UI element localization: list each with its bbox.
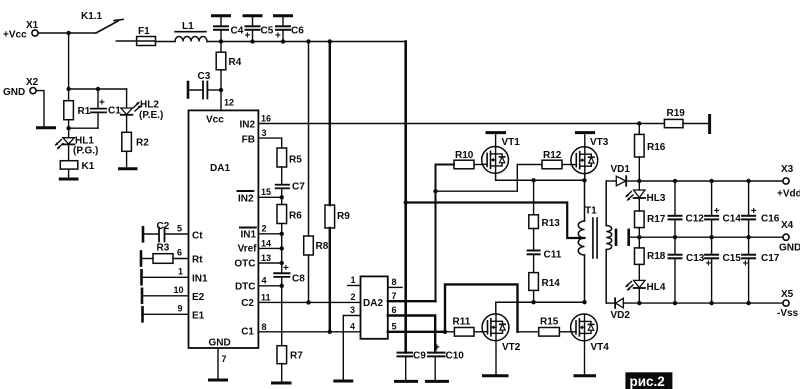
resistor R10 — [454, 150, 482, 169]
svg-text:E2: E2 — [192, 292, 205, 303]
node pin 2 — [280, 232, 284, 236]
svg-text:C12: C12 — [686, 214, 705, 225]
svg-text:+: + — [714, 206, 720, 217]
svg-text:VT2: VT2 — [502, 342, 521, 353]
node +V branch to gate feed — [404, 200, 408, 204]
svg-text:5: 5 — [177, 224, 182, 234]
wire pin 7 to ground — [218, 348, 227, 378]
svg-text:C15: C15 — [723, 253, 742, 264]
svg-text:C13: C13 — [686, 253, 705, 264]
svg-text:рис.2: рис.2 — [630, 374, 665, 389]
resistor R11 — [445, 317, 482, 337]
capacitor C7 — [276, 182, 306, 205]
transistor VT3 — [571, 133, 609, 174]
svg-text:16: 16 — [261, 114, 271, 124]
node R1 top — [66, 87, 70, 91]
svg-text:+: + — [706, 259, 712, 270]
ground (R2) — [120, 167, 137, 170]
node C1 top — [96, 87, 100, 91]
wire rail y89 to HL2 branch — [69, 88, 127, 90]
ground (K1) — [60, 178, 77, 181]
svg-text:R4: R4 — [229, 57, 242, 68]
wire X1 to switch — [38, 32, 96, 34]
svg-text:VD2: VD2 — [611, 310, 631, 321]
svg-text:GND: GND — [3, 87, 25, 98]
node C12 top — [673, 179, 677, 183]
wire X1 node down to R1 rail — [68, 33, 70, 89]
wire K1 to ground — [68, 169, 70, 178]
svg-text:C6: C6 — [291, 26, 304, 37]
node R11 / gate feed — [443, 330, 447, 334]
svg-text:C5: C5 — [261, 26, 274, 37]
wire +V vertical to DA2 area — [404, 42, 407, 353]
svg-text:R5: R5 — [289, 155, 302, 166]
wire HL1 to K1 coil — [68, 144, 70, 160]
svg-text:1: 1 — [351, 275, 356, 285]
svg-text:R15: R15 — [540, 317, 559, 328]
svg-text:GND: GND — [209, 338, 231, 349]
wire pin 8 (C1 out) to DA2 pin 4 — [258, 331, 359, 333]
transformer T1 secondary — [606, 181, 612, 303]
svg-text:C10: C10 — [446, 351, 465, 362]
svg-text:1: 1 — [178, 267, 183, 277]
driver IC DA2 — [361, 276, 388, 338]
svg-text:VT3: VT3 — [590, 137, 609, 148]
pin number labels DA1 left — [174, 224, 184, 314]
transistor VT1 — [482, 133, 521, 174]
T1 secondary centre-tap bars — [616, 230, 639, 245]
svg-text:R16: R16 — [647, 142, 666, 153]
capacitor C1 — [91, 89, 121, 128]
svg-text:R10: R10 — [455, 150, 474, 161]
svg-text:R12: R12 — [543, 150, 562, 161]
resistor R15 — [518, 317, 571, 337]
resistor R3 (pin 6) — [141, 243, 189, 266]
capacitor C3 — [188, 71, 221, 99]
diode VD2 — [606, 298, 639, 321]
wire pin 10 (E2) — [142, 289, 189, 303]
svg-text:(P.G.): (P.G.) — [73, 146, 98, 157]
terminal X2 (GND) — [3, 77, 39, 98]
figure label box (рис.2) — [625, 372, 672, 389]
svg-text:C9: C9 — [413, 351, 426, 362]
ground (DA2 pin 3) — [335, 380, 352, 383]
svg-text:9: 9 — [178, 304, 183, 314]
terminal X4 (GND) — [779, 220, 800, 254]
svg-text:(P.E.): (P.E.) — [139, 110, 163, 121]
ground (DA1 pin 7) — [210, 379, 227, 382]
svg-text:C16: C16 — [761, 214, 780, 225]
svg-text:C7: C7 — [292, 182, 305, 193]
svg-text:+: + — [751, 206, 757, 217]
svg-text:R6: R6 — [289, 211, 302, 222]
svg-text:IN2: IN2 — [239, 120, 255, 131]
svg-text:+: + — [245, 31, 251, 42]
capacitor C14 — [705, 181, 741, 237]
svg-text:R1: R1 — [78, 106, 91, 117]
wire pin 14 (Vref) — [258, 247, 281, 249]
svg-text:2: 2 — [262, 224, 267, 234]
svg-text:C1: C1 — [108, 106, 121, 117]
svg-text:+: + — [99, 98, 105, 109]
svg-text:OTC: OTC — [234, 259, 255, 270]
LED HL2 (P.E.) — [121, 100, 163, 122]
wire pin 11 (C2 out) to DA2 pin 2 — [258, 301, 360, 303]
ground (X2) — [38, 126, 55, 129]
pin 2 label DA2 — [351, 292, 356, 302]
capacitor C2 (pin 5) — [143, 221, 189, 242]
svg-text:X3: X3 — [781, 164, 794, 175]
resistor R2 — [122, 132, 149, 167]
wire node B: VT2/VT4 drains to T1 primary bottom — [496, 302, 585, 314]
svg-text:+Vdd: +Vdd — [777, 189, 800, 200]
svg-text:C11: C11 — [544, 250, 562, 261]
pin 1 stub DA2 — [348, 275, 361, 286]
node X1/R1 junction — [66, 31, 70, 35]
svg-text:VT4: VT4 — [591, 342, 610, 353]
node T1 primary top — [582, 178, 586, 182]
capacitor C11 — [528, 250, 562, 261]
node gate drive branch — [433, 189, 437, 193]
node R9 bottom on pin 8 wire — [328, 330, 332, 334]
svg-text:R19: R19 — [667, 108, 686, 119]
pin number labels DA1 right — [261, 114, 271, 332]
LED HL1 (P.G.) — [55, 128, 99, 156]
svg-text:Vref: Vref — [238, 244, 258, 255]
node C16/C17 mid — [746, 235, 750, 239]
wire pin 16 (IN2) feedback line — [258, 123, 639, 125]
ground (R7) — [273, 382, 291, 385]
node C13 bottom — [673, 301, 677, 305]
LED HL4 — [625, 280, 666, 303]
svg-text:12: 12 — [224, 98, 234, 108]
svg-text:C2: C2 — [157, 221, 170, 232]
capacitor C10 — [428, 343, 464, 381]
resistor R17 — [635, 198, 666, 237]
resistor R16 — [635, 124, 666, 182]
svg-text:10: 10 — [174, 285, 184, 295]
svg-text:HL3: HL3 — [647, 193, 666, 204]
svg-text:R11: R11 — [453, 317, 471, 328]
capacitor C17 — [742, 237, 780, 303]
wire pin 3 DA2 to ground — [343, 305, 360, 379]
wire +V rail — [207, 41, 406, 43]
node C14 top — [709, 179, 713, 183]
svg-text:-Vss: -Vss — [777, 308, 799, 319]
svg-text:K1: K1 — [82, 161, 95, 172]
LED HL3 — [625, 181, 666, 204]
svg-text:R13: R13 — [542, 218, 561, 229]
svg-text:8: 8 — [392, 277, 397, 287]
wire pin 6 DA2 down to pin 5 wire and C10 — [388, 305, 435, 352]
transistor VT4 — [571, 314, 610, 374]
resistor R13 — [529, 180, 560, 250]
svg-text:X5: X5 — [781, 289, 794, 300]
svg-text:C14: C14 — [723, 214, 742, 225]
node C6 — [281, 39, 285, 43]
resistor R19 — [639, 108, 709, 133]
node C12/C13 mid — [673, 235, 677, 239]
svg-text:6: 6 — [177, 248, 182, 258]
diode VD1 — [606, 164, 639, 186]
wire HL2 to R2 — [126, 115, 128, 133]
switch K1.1 — [81, 11, 123, 33]
wire R10 feed from DA2 pin 7 vertical — [436, 165, 455, 302]
svg-text:IN1: IN1 — [240, 230, 256, 241]
svg-text:FB: FB — [242, 135, 255, 146]
node R8 rail tap — [306, 39, 310, 43]
svg-text:4: 4 — [262, 276, 267, 286]
node C15 bottom — [709, 301, 713, 305]
svg-text:C3: C3 — [198, 71, 211, 82]
resistor R4 — [216, 42, 242, 91]
wire pin 1 (IN1) — [142, 270, 189, 284]
svg-text:R7: R7 — [290, 351, 303, 362]
svg-text:HL4: HL4 — [647, 282, 666, 293]
node R4/C4 — [219, 39, 223, 43]
svg-text:VT1: VT1 — [502, 137, 521, 148]
capacitor C8 — [274, 263, 305, 286]
node HL4/VD2 on -Vss rail — [637, 301, 641, 305]
svg-text:DA1: DA1 — [210, 163, 230, 174]
node C3/R4 — [219, 88, 223, 92]
node VD1/R16 on +Vdd rail — [637, 179, 641, 183]
node C17 bottom — [746, 301, 750, 305]
svg-text:HL2: HL2 — [140, 100, 159, 111]
svg-text:C1: C1 — [241, 327, 254, 338]
svg-text:R18: R18 — [647, 251, 666, 262]
wire pin 4 (DTC) — [258, 285, 281, 287]
wire pin 9 (E1) — [143, 307, 189, 321]
svg-text:2: 2 — [351, 292, 356, 302]
wire +Vdd rail to X3 — [639, 180, 783, 182]
svg-text:15: 15 — [261, 187, 271, 197]
resistor R1 — [64, 89, 91, 128]
wire HL2 branch down — [126, 89, 128, 108]
transformer T1 primary — [578, 180, 597, 302]
capacitor C12 — [669, 181, 705, 237]
resistor R18 — [635, 237, 666, 280]
node C14/C15 mid — [709, 235, 713, 239]
svg-text:VD1: VD1 — [611, 164, 631, 175]
svg-text:R3: R3 — [157, 243, 170, 254]
svg-text:C8: C8 — [292, 274, 305, 285]
node R8 bottom on pin 11 wire — [306, 300, 310, 304]
wire GND rail to X4 — [639, 236, 783, 238]
svg-text:6: 6 — [392, 305, 397, 315]
node pin 15 / C7-R6 — [280, 195, 284, 199]
svg-text:5: 5 — [392, 321, 397, 331]
svg-text:IN1: IN1 — [192, 274, 208, 285]
svg-text:Vcc: Vcc — [206, 115, 224, 126]
transformer T1 core — [593, 218, 597, 258]
svg-text:K1.1: K1.1 — [81, 11, 103, 22]
wire F1 to L1 — [156, 41, 176, 43]
svg-text:X4: X4 — [781, 220, 794, 231]
wire VT3 source drop — [584, 174, 586, 181]
wire node A: VT1/VT3 sources to T1 primary top — [496, 173, 585, 180]
svg-text:R14: R14 — [542, 278, 561, 289]
ground (VT2 source) — [484, 374, 508, 377]
wire T1 center tap to +V branch — [406, 203, 585, 239]
svg-text:Rt: Rt — [192, 255, 203, 266]
resistor R6 — [277, 205, 302, 274]
ground (C10) — [427, 380, 448, 383]
pin 4 label DA2 — [350, 321, 355, 331]
resistor R8 — [304, 42, 329, 303]
svg-text:X1: X1 — [26, 20, 39, 31]
svg-text:+: + — [434, 343, 440, 354]
relay coil K1 — [60, 161, 94, 172]
resistor R5 — [277, 148, 302, 185]
node pin 13 — [280, 261, 284, 265]
node C16 top — [746, 179, 750, 183]
svg-text:3: 3 — [262, 128, 267, 138]
ground (C9) — [396, 380, 417, 383]
node R1/HL1 — [66, 126, 70, 130]
inductor L1 — [175, 21, 207, 42]
resistor R14 — [529, 254, 560, 302]
svg-text:C4: C4 — [231, 26, 244, 37]
svg-text:11: 11 — [261, 292, 271, 302]
terminal X3 (+Vdd) — [777, 164, 800, 200]
wire pin 13 (OTC) — [258, 262, 281, 264]
svg-text:4: 4 — [350, 321, 355, 331]
wire pin 15 — [258, 196, 281, 198]
svg-text:7: 7 — [222, 354, 227, 364]
capacitor C13 — [669, 237, 705, 303]
capacitor C9 — [398, 351, 427, 381]
node R9 rail tap — [328, 39, 332, 43]
svg-text:+Vcc: +Vcc — [3, 30, 27, 41]
svg-text:3: 3 — [350, 305, 355, 315]
svg-text:R17: R17 — [647, 214, 666, 225]
svg-text:L1: L1 — [182, 21, 194, 32]
wire X2 to ground — [36, 91, 44, 127]
wire -Vss rail to X5 — [639, 302, 783, 304]
svg-text:DTC: DTC — [235, 282, 256, 293]
wire switch to F1 — [116, 40, 136, 42]
op-amp/PWM IC DA1 — [189, 110, 259, 348]
svg-text:T1: T1 — [585, 206, 597, 217]
svg-text:DA2: DA2 — [363, 298, 383, 309]
node pin 4 / C8 — [280, 284, 284, 288]
wire R1 bottom to C1 bottom — [69, 127, 98, 129]
svg-text:R8: R8 — [316, 241, 329, 252]
resistor R12 — [517, 150, 571, 169]
node R13 top — [531, 178, 535, 182]
svg-text:F1: F1 — [138, 26, 150, 37]
wire gate feed to R15 — [445, 284, 518, 331]
fuse F1 — [137, 26, 156, 46]
svg-text:Ct: Ct — [192, 231, 203, 242]
pin 8 stub DA2 — [388, 277, 402, 287]
node C5 — [250, 39, 254, 43]
svg-text:7: 7 — [392, 291, 397, 301]
svg-text:R9: R9 — [337, 211, 350, 222]
wire C8 node down to R7 — [281, 286, 283, 346]
svg-text:R2: R2 — [136, 138, 149, 149]
node T1 primary bottom — [582, 300, 586, 304]
svg-text:14: 14 — [261, 238, 271, 248]
wire C3 node to DA1 pin 12 — [221, 90, 234, 110]
capacitor C15 — [705, 237, 741, 303]
resistor R9 — [325, 42, 350, 332]
svg-text:8: 8 — [262, 322, 267, 332]
node pin 14 — [280, 246, 284, 250]
svg-text:+: + — [275, 31, 281, 42]
wire pin 7 DA2 to +V vertical and gate feed — [388, 291, 436, 301]
wire pin 2 — [258, 233, 281, 235]
svg-text:13: 13 — [261, 253, 271, 263]
svg-text:X2: X2 — [26, 77, 39, 88]
terminal X5 (-Vss) — [777, 289, 799, 319]
capacitor C4 — [213, 16, 244, 42]
svg-text:IN2: IN2 — [238, 194, 254, 205]
capacitor C16 — [742, 181, 780, 237]
node R16/R19 junction — [637, 121, 641, 125]
svg-text:C17: C17 — [761, 253, 780, 264]
wire pin 5 DA2 to R11 node — [388, 321, 445, 332]
node R14 bottom — [531, 300, 535, 304]
wire drive branch to R12 riser — [436, 165, 518, 192]
wire pin 3 (FB) to R5 — [258, 138, 281, 148]
svg-text:C2: C2 — [241, 298, 254, 309]
svg-text:+: + — [283, 263, 289, 274]
transistor VT2 — [482, 314, 521, 374]
svg-text:E1: E1 — [192, 311, 205, 322]
ground (VT4 source) — [575, 374, 595, 377]
svg-text:GND: GND — [779, 243, 800, 254]
capacitor C6 — [275, 16, 305, 42]
resistor R7 — [277, 346, 303, 382]
svg-text:+: + — [743, 259, 749, 270]
terminal X1 (+Vcc) — [3, 20, 39, 41]
capacitor C5 — [244, 16, 274, 42]
node centre-tap / R17 / R18 — [637, 235, 641, 239]
